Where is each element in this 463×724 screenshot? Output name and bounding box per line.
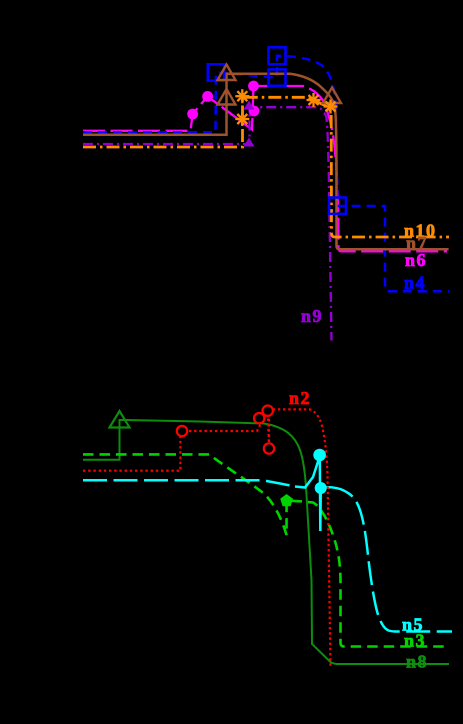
svg-text:n9: n9 (301, 306, 323, 326)
marker circle n2 a (177, 426, 187, 436)
marker circle n6 b (202, 91, 213, 102)
marker circle n2 c (263, 406, 273, 416)
marker star n10 c (307, 93, 321, 107)
marker triangle n9 b (244, 101, 255, 110)
svg-text:n3: n3 (404, 631, 426, 651)
marker triangle n7 c (323, 88, 341, 104)
curve n3 lime dashed (83, 454, 449, 646)
svg-text:n4: n4 (404, 273, 426, 293)
curve n9 darkviolet dash-dot (83, 107, 332, 340)
curve n2 red dotted (83, 409, 331, 666)
curve n6 magenta solid (83, 86, 447, 251)
marker pentagon n3 (280, 494, 293, 506)
marker circle n5 b (315, 482, 327, 494)
curve n5 cyan spike (295, 456, 331, 531)
marker triangle n9 a (244, 138, 255, 147)
marker square n4 d (329, 198, 346, 214)
marker square n4 c (269, 47, 286, 64)
marker triangle n7 a (218, 89, 236, 105)
curve n5 cyan right descent (331, 487, 452, 631)
marker star n10 d (324, 100, 338, 114)
curve n4 blue dashed (83, 56, 449, 291)
curve n10 orange dash-dot (83, 97, 449, 237)
marker star n10 b (235, 89, 249, 103)
marker circle n6 a (187, 109, 198, 120)
marker star n10 a (235, 112, 249, 126)
marker circle n6 c (249, 106, 260, 117)
marker square n4 b (269, 69, 286, 85)
marker triangle n7 b (218, 65, 236, 81)
marker circle n6 d (248, 81, 259, 92)
curve n8 green solid (83, 420, 449, 664)
svg-text:n8: n8 (406, 652, 428, 672)
marker square n4 a (208, 64, 224, 80)
curve n7 sienna solid (83, 74, 449, 250)
svg-text:n2: n2 (289, 388, 311, 408)
marker circle n2 b (254, 413, 264, 423)
marker circle n2 d (264, 443, 274, 453)
marker circle n5 a (313, 449, 326, 462)
marker triangle n8 (110, 411, 130, 428)
svg-text:n6: n6 (405, 250, 427, 270)
curve n5 cyan long-dash left flat (83, 480, 295, 486)
